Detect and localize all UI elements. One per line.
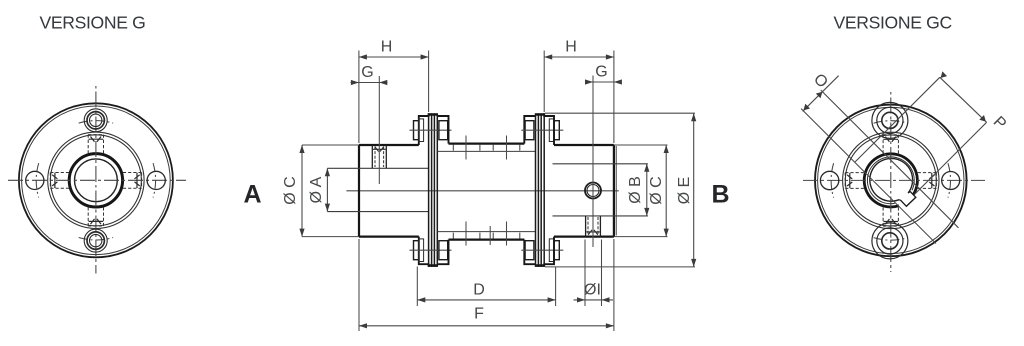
left hub set-screw hole: [372, 145, 386, 168]
left spacer flange disc: [437, 116, 448, 264]
right flange bore with keyway gap: [870, 158, 913, 201]
left bolt axis bottom: [410, 249, 452, 251]
svg-text:A: A: [243, 181, 261, 209]
right nut top: [525, 121, 534, 140]
right hub flange disc: [544, 113, 554, 267]
right flange top bolt hole: [872, 102, 908, 138]
left hub set-screw body: [375, 147, 384, 168]
left flange horizontal centerline: [8, 179, 186, 181]
left flange right bolt hole: [147, 171, 165, 189]
right flange bore ring with keyway gap: [864, 154, 917, 207]
left flange bolt-circle arc bottom: [79, 238, 113, 241]
left flange set-screw hole bottom (hidden): [88, 207, 103, 226]
right flange set-screw hole left (hidden): [845, 173, 864, 189]
O dimension extension line 1: [801, 109, 936, 244]
svg-text:F: F: [474, 306, 484, 323]
right flange hub circle: [845, 135, 936, 226]
right bolt axis top: [521, 129, 563, 131]
dimension I arrows: [577, 297, 610, 302]
dimension G left line: [351, 82, 388, 84]
left lamina pack end caps: [429, 115, 438, 266]
left flange vertical centerline: [95, 86, 97, 274]
right flange horizontal centerline: [803, 179, 985, 181]
svg-text:Ø C: Ø C: [648, 176, 665, 204]
dimension B right arrows: [644, 164, 649, 216]
left hub outline: [359, 145, 419, 237]
right flange set-screw slot right: [929, 173, 934, 188]
right flange set-screw hole bottom (hidden): [883, 207, 898, 226]
left flange bore: [75, 159, 118, 202]
left flange set-screw slot left: [52, 173, 57, 188]
O dimension arrows: [803, 92, 822, 111]
dimension A left line: [326, 168, 328, 211]
dimension G right line: [586, 81, 622, 83]
svg-text:H: H: [381, 39, 393, 56]
svg-text:G: G: [361, 64, 373, 81]
right hub set-screw slot: [586, 230, 600, 235]
left flange set-screw slot right: [135, 173, 140, 188]
svg-text:ØI: ØI: [584, 282, 601, 299]
right flange set-screw hole right (hidden): [918, 173, 937, 189]
left flange set-screw hole top (hidden): [88, 135, 103, 154]
right hub bore bottom line: [553, 215, 648, 217]
right flange spacer-tube circle: [843, 132, 939, 228]
dimension A left arrows: [325, 168, 330, 211]
right hub set-screw centerline: [592, 76, 594, 248]
right lamina pack plate 1: [536, 113, 539, 267]
right flange left bolt hole: [820, 171, 838, 189]
right lamina pack end caps: [536, 115, 545, 266]
dimension H left arrows: [359, 54, 429, 59]
right flange keyway notch: [899, 192, 916, 207]
dimension H right extension lines: [544, 51, 614, 144]
left flange bolt-circle arc left: [36, 163, 39, 197]
right flange bore ring inner arc: [867, 157, 914, 204]
dimension I extension lines: [585, 240, 602, 307]
svg-text:VERSIONE G: VERSIONE G: [40, 13, 146, 33]
dimension H left extension lines: [359, 51, 429, 144]
dimension D extension lines: [417, 267, 555, 307]
spacer tube inner top: [437, 150, 535, 152]
right bolt head bottom: [554, 241, 559, 260]
right flange set-screw slot bottom: [883, 219, 898, 224]
left hub set-screw centerline: [378, 76, 380, 184]
left hub bore bottom line: [327, 211, 428, 213]
svg-text:Ø B: Ø B: [627, 176, 644, 204]
right bolt head top: [554, 121, 559, 140]
left flange spacer-tube circle: [48, 132, 144, 228]
left nut top: [439, 121, 448, 140]
left flange hub circle: [50, 135, 141, 226]
left lamina pack plate 1: [429, 113, 432, 267]
dimension G right arrows: [585, 79, 622, 84]
left flange disc circle: [22, 106, 171, 255]
right flange right bolt hole: [942, 172, 960, 190]
spacer tube stitch ticks top: [453, 145, 520, 151]
right hub set-screw body: [588, 217, 598, 235]
spacer tube centermarks bottom: [466, 222, 507, 246]
P dimension extension line 2: [915, 122, 987, 194]
svg-text:VERSIONE GC: VERSIONE GC: [834, 13, 953, 33]
dimension E line: [693, 113, 695, 267]
left hub flange disc inner edges: [418, 121, 420, 260]
dimension D line: [417, 299, 555, 301]
left flange left bolt hole: [26, 171, 44, 189]
dimension C left extension lines: [302, 145, 359, 237]
right spacer flange disc: [524, 116, 535, 264]
dimension C right line: [665, 145, 667, 237]
right flange set-screw slot left: [847, 173, 852, 188]
spacer tube inner bottom: [437, 231, 535, 233]
right flange bolt-circle arc bottom: [874, 238, 908, 241]
right flange set-screw slot top: [883, 137, 898, 142]
svg-text:D: D: [473, 282, 485, 299]
right flange vertical centerline: [890, 92, 892, 272]
right hub outline: [554, 145, 614, 237]
left bolt washer bottom: [419, 239, 424, 262]
left hub flange disc: [419, 113, 429, 267]
dimension H left line: [359, 56, 429, 58]
dimension E extension lines: [545, 113, 695, 267]
dimension G left arrows: [351, 80, 387, 85]
right bolt axis bottom: [521, 249, 563, 251]
spacer tube centermarks top: [466, 136, 507, 160]
P dimension arrows: [941, 71, 986, 121]
left bolt head top: [414, 121, 419, 140]
dimension H right line: [544, 56, 614, 58]
dimension C left arrows: [299, 145, 304, 237]
svg-text:H: H: [565, 39, 577, 56]
dimension E arrows: [691, 113, 696, 267]
spacer tube stitch ticks bottom: [453, 233, 520, 239]
left flange set-screw slot bottom: [89, 219, 104, 224]
dimension D arrows: [417, 297, 555, 302]
left bolt washer top: [419, 119, 424, 142]
left flange bottom bolt hole: [84, 229, 107, 252]
right flange bolt-circle arc left: [831, 163, 834, 197]
dimension H right arrows: [544, 54, 614, 59]
P dimension line: [940, 77, 987, 122]
P dimension extension line 1: [855, 77, 940, 162]
right hub chamfer line: [615, 146, 617, 236]
svg-text:G: G: [595, 64, 607, 81]
right flange set-screw hole top (hidden): [883, 135, 898, 154]
left lamina pack plate 2: [434, 113, 437, 267]
dimension I line: [574, 299, 614, 301]
dimension F extension lines: [359, 239, 614, 331]
dimension F arrows: [359, 323, 614, 328]
spacer tube outer top: [449, 142, 525, 144]
right flange bottom bolt hole: [872, 223, 908, 259]
right bolt washer top: [549, 119, 554, 142]
spacer tube outer bottom: [449, 238, 525, 240]
left flange outer circle (pack OD): [19, 103, 173, 257]
right flange outer circle (pack OD): [815, 105, 967, 257]
left hub set-screw slot: [373, 147, 386, 152]
left flange top bolt hole: [84, 109, 107, 132]
dimension C right extension lines: [614, 145, 668, 237]
left flange bolt-circle arc right: [153, 163, 156, 197]
left flange set-screw slot top: [89, 137, 104, 142]
right flange bolt-circle arc right: [948, 163, 951, 197]
dimension B right line: [646, 164, 648, 216]
O dimension line: [803, 76, 839, 112]
left flange bolt-circle arc top: [79, 121, 113, 124]
right nut bottom: [525, 241, 534, 260]
dimension C right arrows: [664, 145, 669, 237]
dimension C left line: [301, 145, 303, 237]
left hub bore top line: [327, 167, 428, 169]
left flange set-screw hole right (hidden): [123, 173, 142, 189]
right hub radial hole: [585, 183, 601, 199]
left bolt axis top: [410, 129, 452, 131]
svg-text:Ø A: Ø A: [308, 176, 325, 203]
right hub set-screw hole: [586, 216, 601, 237]
left bolt head bottom: [414, 241, 419, 260]
right bolt washer bottom: [549, 239, 554, 262]
left flange set-screw hole left (hidden): [50, 173, 69, 189]
svg-text:Ø C: Ø C: [282, 176, 299, 204]
dimension F line: [359, 325, 614, 327]
svg-text:Ø E: Ø E: [676, 177, 693, 205]
section axis centerline: [346, 190, 618, 192]
right hub bore top line: [553, 163, 648, 165]
right flange disc circle: [818, 107, 964, 253]
O dimension extension line 2: [821, 90, 959, 228]
left nut bottom: [439, 241, 448, 260]
left flange bore ring: [69, 154, 122, 207]
svg-text:B: B: [711, 181, 729, 209]
right lamina pack plate 2: [541, 113, 544, 267]
right flange bolt-circle arc top: [874, 121, 908, 124]
